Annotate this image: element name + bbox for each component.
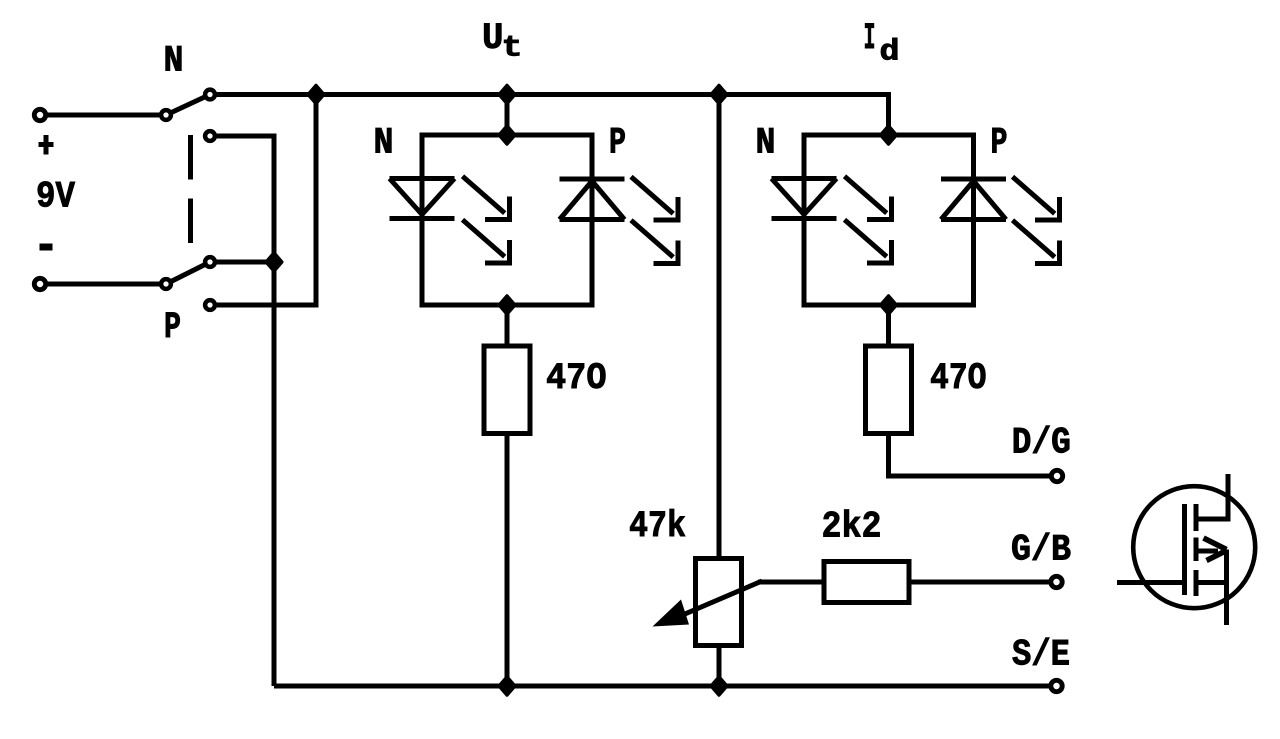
mosfet channel segment bottom: [1194, 570, 1199, 596]
svg-text:S/E: S/E: [1012, 635, 1070, 677]
mosfet body circle: [1133, 486, 1255, 608]
switch S1b throw contact lower: [205, 300, 215, 310]
svg-text:P: P: [991, 123, 1008, 165]
svg-text:47k: 47k: [629, 506, 686, 548]
switch linkage dashed: [188, 135, 193, 180]
resistor 470 (right): [866, 346, 912, 434]
battery - terminal: [34, 278, 45, 289]
junction bottom rail / pot branch: [711, 677, 727, 695]
switch S1a pole contact: [161, 110, 171, 120]
wire battery - to switch pole B: [40, 282, 166, 287]
junction Ut box bottom: [499, 296, 515, 314]
LED P of Ut light arrow 2: [631, 220, 678, 263]
svg-text:N: N: [756, 123, 776, 165]
wire Ut drop from rail: [505, 95, 510, 136]
battery + terminal: [34, 109, 45, 120]
mosfet drain connection: [1196, 474, 1228, 519]
mosfet gate lead: [1117, 580, 1185, 585]
LED N of Ut light arrow 2: [463, 220, 510, 263]
svg-text:d: d: [880, 36, 900, 70]
potentiometer wiper arrow shaft: [665, 581, 762, 623]
svg-text:N: N: [164, 41, 184, 83]
svg-text:I: I: [864, 18, 876, 60]
wire S1b throw P right and up to top rail: [210, 95, 316, 306]
wire Id box bottom to resistor: [886, 305, 891, 346]
svg-text:N: N: [374, 123, 394, 165]
mosfet gate electrode: [1182, 504, 1187, 595]
svg-text:P: P: [609, 123, 626, 165]
LED P of Id box (cathode up): [941, 179, 1006, 220]
mosfet source/bulk vertical lead: [1224, 550, 1229, 626]
wire left vertical down to bottom rail: [272, 262, 277, 686]
wire resistor to D/G terminal: [889, 433, 1052, 476]
LED box Id outline: [804, 135, 974, 305]
svg-text:2k2: 2k2: [822, 507, 882, 549]
LED N of Id box (cathode down): [772, 179, 837, 219]
LED P of Ut box (cathode up): [560, 179, 625, 220]
wire S1a throw P down to junction: [210, 136, 274, 262]
svg-text:U: U: [482, 18, 504, 60]
switch S1b throw contact upper: [205, 257, 215, 267]
terminal S/E: [1051, 680, 1062, 691]
LED N of Id light arrow 1: [845, 176, 892, 219]
switch S1b pole contact: [161, 279, 171, 289]
mosfet channel segment middle: [1194, 538, 1199, 562]
switch S1a throw N contact: [205, 90, 215, 100]
wire top rail: [210, 95, 889, 136]
switch S1a throw P contact: [205, 131, 215, 141]
LED symbols: [390, 176, 1060, 263]
mosfet bulk arrow head: [1204, 538, 1227, 561]
potentiometer 47k body: [696, 559, 742, 646]
label + (battery positive): [39, 135, 54, 155]
resistor 2k2: [824, 562, 909, 603]
svg-text:9V: 9V: [36, 177, 75, 219]
open circles: battery terminals: [34, 90, 1062, 692]
MOSFET symbol: [1117, 474, 1255, 625]
junction Ut box top: [499, 126, 515, 144]
switch S1b lever: [166, 262, 210, 284]
svg-text:t: t: [502, 32, 523, 66]
switch S1a lever (N position): [166, 95, 210, 116]
LED P of Ut light arrow 1: [631, 177, 678, 220]
wire wiper to 2k2: [758, 580, 824, 585]
junction switch P wire / left vertical: [266, 253, 282, 271]
mosfet channel segment top: [1194, 504, 1199, 531]
mosfet source connection: [1196, 580, 1228, 585]
wire 2k2 to G/B terminal: [909, 580, 1051, 585]
junction bottom rail / 470 branch: [499, 677, 515, 695]
wire resistor down to bottom rail: [505, 433, 510, 686]
svg-text:47O: 47O: [546, 358, 607, 400]
LED N of Id light arrow 2: [845, 220, 892, 263]
wire bottom rail: [274, 684, 1051, 689]
junction Id box bottom: [881, 296, 897, 314]
label - (battery negative): [40, 244, 53, 251]
potentiometer arrow head: [653, 600, 690, 627]
junction Id box top: [881, 126, 897, 144]
junction top rail / pot branch: [711, 86, 727, 104]
resistor 470 (left): [484, 346, 530, 434]
LED P of Id light arrow 1: [1013, 177, 1060, 220]
junction top rail / Ut drop: [499, 86, 515, 104]
wire Ut box bottom to resistor: [505, 305, 510, 346]
LED N of Ut light arrow 1: [463, 176, 510, 219]
LED N of Ut box (cathode down): [390, 179, 455, 219]
LED P of Id light arrow 2: [1013, 220, 1060, 263]
LED box Ut outline: [422, 135, 592, 305]
mosfet bulk arrow shaft: [1197, 549, 1218, 554]
terminal G/B: [1051, 576, 1062, 587]
svg-text:G/B: G/B: [1011, 530, 1071, 572]
svg-text:47O: 47O: [930, 358, 987, 400]
wire S1b throw to junction: [210, 260, 274, 265]
junction top rail / S1b throw P riser: [308, 86, 324, 104]
wire battery + to switch pole A: [40, 113, 166, 118]
terminal D/G: [1051, 470, 1062, 481]
wire pot branch vertical: [717, 95, 722, 559]
wire pot bottom to rail: [717, 646, 722, 687]
svg-text:P: P: [164, 307, 181, 349]
svg-text:D/G: D/G: [1012, 423, 1071, 465]
